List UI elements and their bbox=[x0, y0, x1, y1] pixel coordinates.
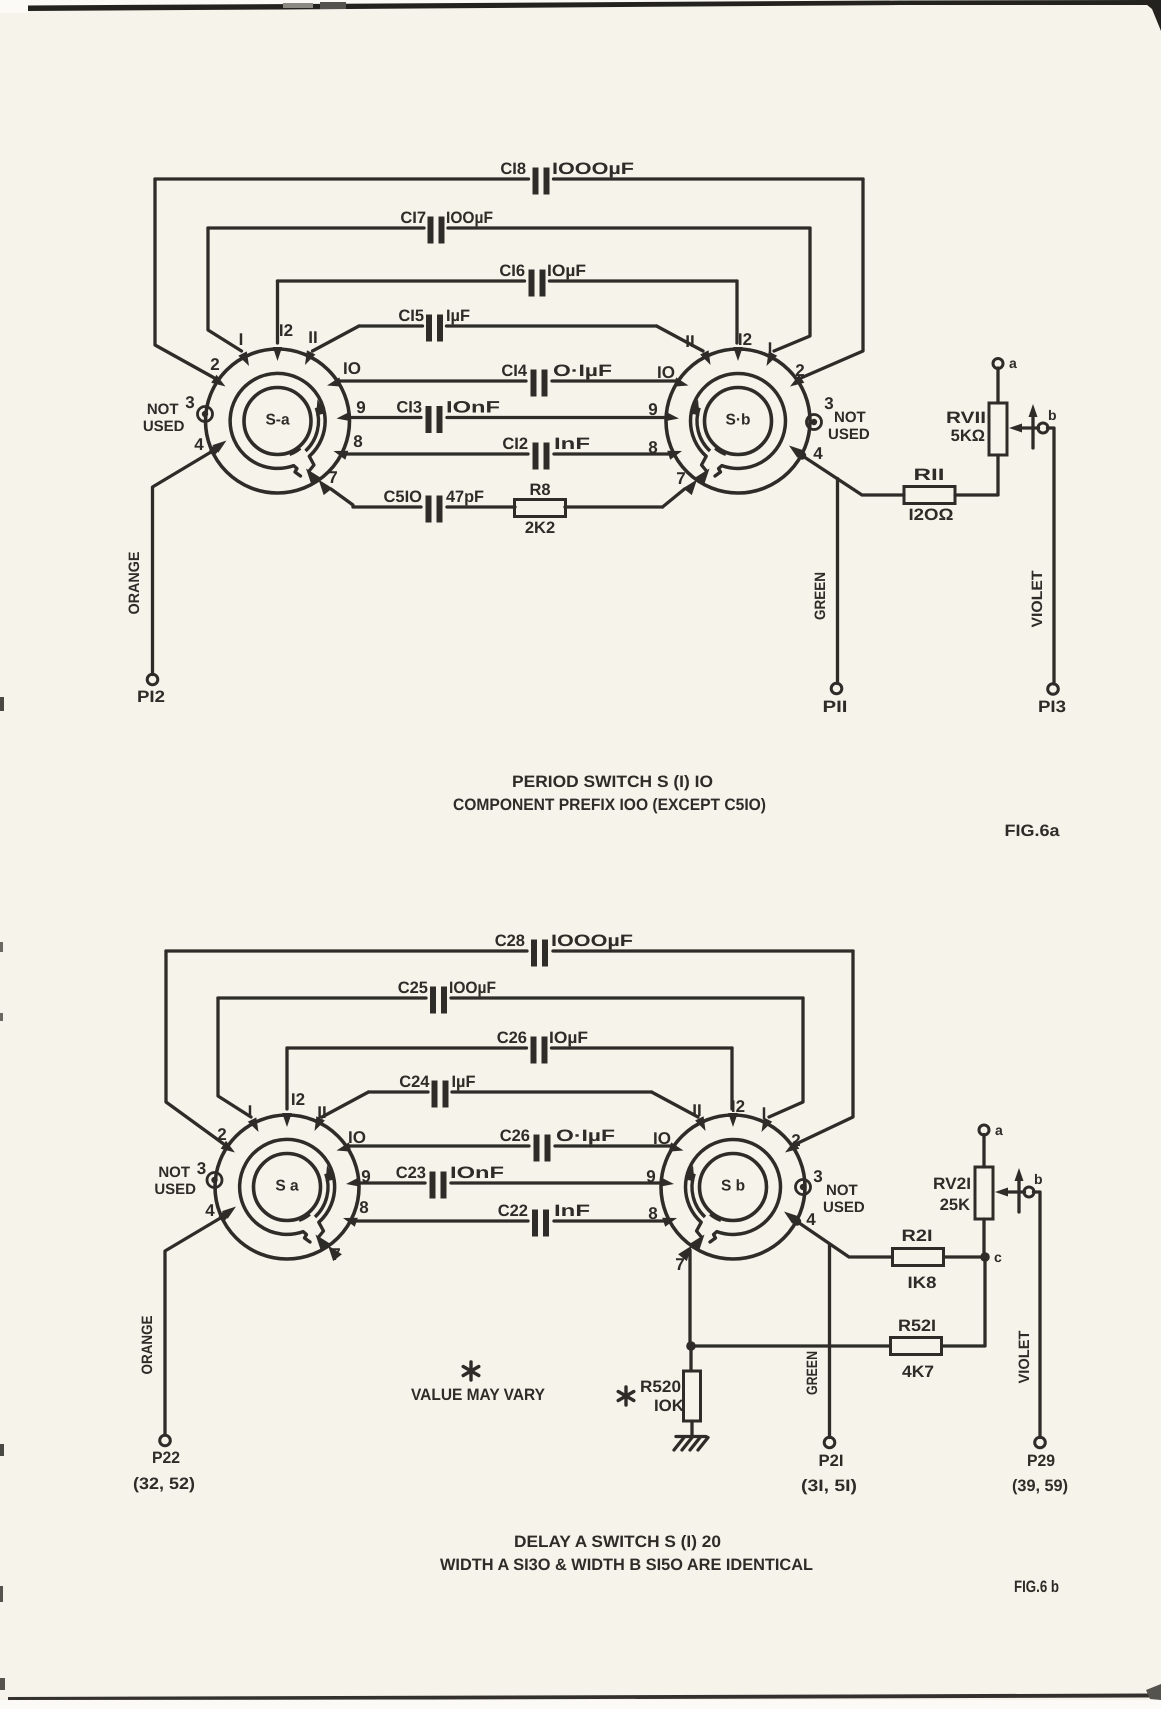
svg-text:a: a bbox=[995, 1122, 1003, 1138]
svg-text:C22: C22 bbox=[498, 1202, 528, 1220]
capacitor C12 1nF bbox=[533, 443, 539, 470]
svg-text:RVII: RVII bbox=[946, 409, 986, 427]
wire C17 left vertical to Sa pin 1 bbox=[208, 228, 242, 351]
svg-text:C26: C26 bbox=[500, 1127, 530, 1145]
svg-text:InF: InF bbox=[554, 435, 590, 453]
capacitor C15 1uF bbox=[426, 315, 432, 342]
asterisk at R520 bbox=[618, 1387, 634, 1405]
svg-text:I: I bbox=[248, 1102, 253, 1121]
svg-text:9: 9 bbox=[356, 398, 365, 417]
svg-text:I: I bbox=[239, 330, 244, 349]
svg-text:FIG.6a: FIG.6a bbox=[1005, 822, 1061, 840]
svg-text:I2: I2 bbox=[291, 1090, 305, 1109]
capacitor C23 10nF bbox=[430, 1172, 436, 1199]
svg-text:b: b bbox=[1034, 1171, 1043, 1187]
terminal b fig b bbox=[1024, 1187, 1034, 1197]
wire C13 row pins 9 bbox=[350, 416, 421, 419]
wire C28 right vertical to Sb pin 2 bbox=[797, 951, 853, 1144]
svg-text:P2I: P2I bbox=[819, 1452, 844, 1470]
svg-text:CI8: CI8 bbox=[500, 160, 526, 178]
svg-text:ORANGE: ORANGE bbox=[139, 1316, 156, 1375]
svg-text:IOOOµF: IOOOµF bbox=[551, 932, 633, 950]
NOT USED terminal 3 Sa fig a bbox=[198, 407, 213, 422]
svg-text:8: 8 bbox=[353, 432, 362, 451]
svg-text:IOnF: IOnF bbox=[446, 399, 500, 417]
switch Sb1 inner rotor circle bbox=[705, 388, 772, 455]
svg-text:I2: I2 bbox=[738, 330, 752, 349]
svg-text:4K7: 4K7 bbox=[902, 1363, 934, 1381]
switch Sa1 wiper arc arrow bbox=[306, 408, 319, 451]
resistor R11 120ohm bbox=[904, 487, 955, 504]
svg-text:3: 3 bbox=[185, 393, 194, 412]
svg-text:C26: C26 bbox=[497, 1029, 527, 1047]
wire node c down to R521 bbox=[942, 1257, 985, 1346]
wire RV21 bottom to node c bbox=[982, 1219, 985, 1257]
svg-text:InF: InF bbox=[554, 1202, 590, 1220]
pin 4 wire Sb fig a to R11 and GREEN bbox=[802, 456, 904, 496]
pin arrows top Sb fig b bbox=[728, 1113, 738, 1127]
svg-text:C5IO: C5IO bbox=[383, 488, 422, 506]
svg-text:9: 9 bbox=[648, 400, 657, 419]
svg-text:2: 2 bbox=[795, 361, 804, 380]
wiper arrow RV11 bbox=[1020, 426, 1039, 429]
svg-text:4: 4 bbox=[194, 435, 204, 454]
svg-text:8: 8 bbox=[648, 1204, 657, 1223]
svg-text:R2I: R2I bbox=[902, 1227, 933, 1245]
resistor R520 10K (vertical) bbox=[689, 1346, 692, 1371]
svg-text:I2: I2 bbox=[279, 321, 293, 340]
violet wire fig a bbox=[1048, 428, 1055, 684]
wire C14 row pins 10 bbox=[340, 379, 526, 382]
svg-text:IOOµF: IOOµF bbox=[449, 979, 496, 997]
svg-text:CI7: CI7 bbox=[400, 209, 426, 227]
scan specks left edge bbox=[0, 697, 4, 711]
svg-text:CI6: CI6 bbox=[499, 262, 525, 280]
svg-text:CI4: CI4 bbox=[501, 362, 528, 380]
wire C25 right vertical to Sb pin 1 bbox=[769, 998, 803, 1117]
svg-text:R8: R8 bbox=[529, 481, 550, 499]
node P13 (VIOLET) bbox=[1048, 684, 1059, 695]
svg-text:I2OΩ: I2OΩ bbox=[909, 506, 954, 524]
NOT USED terminal 3 Sb fig a bbox=[807, 415, 822, 430]
svg-text:I: I bbox=[768, 339, 773, 358]
svg-text:2K2: 2K2 bbox=[525, 519, 555, 537]
switch Sa2 contact ring with notch bbox=[240, 1139, 335, 1234]
junction dot pin7/R520/R521 bbox=[686, 1341, 696, 1351]
capacitor C510 47pF bbox=[426, 496, 432, 523]
wire R521 to pin7 junction bbox=[692, 1344, 890, 1347]
potentiometer RV11 5K bbox=[989, 403, 1007, 455]
terminal b fig a bbox=[1038, 423, 1048, 433]
svg-text:R52I: R52I bbox=[898, 1317, 936, 1335]
switch Sa1 contact ring with notch bbox=[230, 373, 325, 468]
switch Sb2 wiper arc arrow bbox=[692, 1174, 705, 1217]
svg-text:3: 3 bbox=[824, 394, 833, 413]
scan edge dark line bottom bbox=[8, 1694, 1161, 1701]
pin 4 wire Sb fig b to R21 bbox=[797, 1222, 892, 1258]
switch Sa2 wiper arc arrow bbox=[315, 1174, 328, 1217]
pin 8 arrows fig b bbox=[343, 1218, 358, 1227]
svg-text:IOµF: IOµF bbox=[549, 1029, 588, 1047]
pin arrows top Sa fig a bbox=[273, 347, 282, 361]
svg-text:GREEN: GREEN bbox=[804, 1351, 821, 1395]
svg-text:II: II bbox=[692, 1101, 701, 1120]
svg-text:4: 4 bbox=[813, 444, 823, 463]
svg-text:NOT: NOT bbox=[158, 1164, 190, 1181]
svg-text:IO: IO bbox=[343, 359, 361, 378]
pin 7 arrows + wire Sb fig b bbox=[691, 1235, 705, 1251]
svg-text:47pF: 47pF bbox=[446, 488, 484, 506]
svg-text:USED: USED bbox=[828, 426, 870, 443]
wire C15 row to pins 11 bbox=[359, 324, 423, 327]
svg-text:7: 7 bbox=[328, 468, 337, 487]
green branch vertical fig a bbox=[836, 479, 839, 684]
node P21 (GREEN) bbox=[824, 1437, 835, 1448]
svg-text:(3I, 5I): (3I, 5I) bbox=[801, 1477, 857, 1495]
svg-text:IOnF: IOnF bbox=[450, 1164, 504, 1182]
pin arrows top Sa fig b bbox=[282, 1113, 292, 1127]
violet wire fig b bbox=[1034, 1192, 1041, 1438]
capacitor C24 1uF bbox=[432, 1081, 438, 1108]
wire C510/R8 row pins 7 bbox=[331, 489, 421, 507]
svg-text:2: 2 bbox=[210, 355, 219, 374]
wire C17 loop bbox=[208, 226, 424, 229]
svg-text:IOµF: IOµF bbox=[547, 262, 586, 280]
pin 9 arrows fig b bbox=[346, 1177, 361, 1187]
svg-text:CI3: CI3 bbox=[396, 399, 422, 417]
wire C18 left vertical to Sa pin 2 bbox=[155, 179, 214, 378]
pin 10 arrows fig b bbox=[337, 1142, 352, 1151]
svg-text:DELAY A SWITCH S (I) 20: DELAY A SWITCH S (I) 20 bbox=[514, 1533, 721, 1551]
wire C28 left vertical to Sa pin 2 bbox=[166, 951, 223, 1144]
svg-text:(32, 52): (32, 52) bbox=[133, 1475, 195, 1493]
wire C18 right vertical to Sb pin 2 bbox=[802, 179, 863, 378]
svg-text:PI2: PI2 bbox=[137, 688, 165, 706]
svg-text:9: 9 bbox=[646, 1167, 655, 1186]
wire C16 loop bbox=[278, 279, 525, 282]
NOT USED terminal 3 Sa fig b bbox=[207, 1173, 222, 1188]
wire C24 row to pins 11 bbox=[369, 1090, 429, 1093]
svg-text:NOT: NOT bbox=[826, 1182, 858, 1199]
pin 10 arrows fig a bbox=[327, 377, 342, 386]
resistor R21 1K8 bbox=[893, 1249, 944, 1266]
svg-text:IOOµF: IOOµF bbox=[446, 209, 493, 227]
pin 7 arrows fig a bbox=[306, 469, 320, 485]
svg-text:3: 3 bbox=[813, 1167, 822, 1186]
svg-text:O·IµF: O·IµF bbox=[553, 362, 612, 380]
terminal a fig a bbox=[993, 359, 1003, 369]
wire C26 right vertical to Sb pin 12 bbox=[730, 1048, 733, 1109]
capacitor C18 1000uF bbox=[533, 168, 539, 195]
svg-text:CI5: CI5 bbox=[398, 307, 424, 325]
svg-text:25K: 25K bbox=[940, 1196, 970, 1214]
svg-text:P29: P29 bbox=[1027, 1452, 1055, 1470]
note asterisk bbox=[463, 1362, 479, 1380]
switch Sb1 wiper arc arrow bbox=[697, 408, 710, 451]
wire C25 loop bbox=[218, 996, 426, 999]
svg-text:O·IµF: O·IµF bbox=[556, 1127, 615, 1145]
switch Sa2 inner rotor circle bbox=[254, 1154, 321, 1221]
svg-text:9: 9 bbox=[361, 1167, 370, 1186]
wire C16 right vertical to Sb pin 12 bbox=[735, 281, 738, 343]
pin arrows top Sb fig a bbox=[733, 347, 743, 361]
svg-text:2: 2 bbox=[791, 1131, 800, 1150]
svg-text:C24: C24 bbox=[399, 1073, 430, 1091]
svg-text:NOT: NOT bbox=[834, 409, 866, 426]
svg-text:IO: IO bbox=[653, 1129, 671, 1148]
svg-text:II: II bbox=[685, 332, 694, 351]
svg-text:S-a: S-a bbox=[265, 412, 290, 429]
svg-text:IK8: IK8 bbox=[908, 1274, 937, 1292]
svg-text:IO: IO bbox=[348, 1128, 366, 1147]
svg-text:S·b: S·b bbox=[726, 412, 751, 429]
svg-text:8: 8 bbox=[359, 1198, 368, 1217]
svg-text:COMPONENT PREFIX IOO (EXCEPT: COMPONENT PREFIX IOO (EXCEPT C5IO) bbox=[453, 796, 766, 814]
svg-text:IO: IO bbox=[657, 363, 675, 382]
svg-text:USED: USED bbox=[823, 1199, 865, 1216]
green branch vertical fig b bbox=[828, 1245, 831, 1438]
svg-text:P22: P22 bbox=[152, 1449, 180, 1467]
svg-text:(39, 59): (39, 59) bbox=[1012, 1477, 1068, 1495]
pin 4 arrow + ORANGE wire Sa fig b bbox=[165, 1217, 223, 1436]
svg-text:II: II bbox=[308, 328, 317, 347]
switch Sa1 inner rotor circle bbox=[244, 388, 311, 455]
wire C25 left vertical to Sa pin 1 bbox=[218, 998, 251, 1117]
svg-text:IOK: IOK bbox=[654, 1397, 684, 1415]
capacitor C13 10nF bbox=[426, 406, 432, 433]
capacitor C16 10uF bbox=[529, 270, 535, 297]
svg-text:4: 4 bbox=[205, 1201, 215, 1220]
terminal a fig b bbox=[979, 1125, 989, 1135]
pin 4 arrow + junction Sa fig a bbox=[153, 451, 214, 675]
svg-text:7: 7 bbox=[331, 1245, 340, 1264]
wire C18 loop top bbox=[155, 177, 529, 180]
svg-text:2: 2 bbox=[217, 1125, 226, 1144]
capacitor C17 100uF bbox=[428, 217, 434, 244]
svg-text:5KΩ: 5KΩ bbox=[951, 427, 985, 445]
switch Sb1 contact ring with notch bbox=[690, 373, 785, 468]
switch Sb2 contact ring with notch bbox=[686, 1139, 781, 1234]
svg-text:GREEN: GREEN bbox=[812, 572, 829, 620]
svg-text:IOOOµF: IOOOµF bbox=[552, 160, 634, 178]
svg-text:USED: USED bbox=[154, 1181, 196, 1198]
svg-text:WIDTH A SI3O & WIDTH B S: WIDTH A SI3O & WIDTH B SI5O ARE IDENTICA… bbox=[440, 1556, 813, 1574]
svg-text:c: c bbox=[994, 1249, 1002, 1265]
svg-text:ORANGE: ORANGE bbox=[126, 552, 143, 615]
node c junction bbox=[944, 1255, 984, 1258]
wire C26 loop bbox=[287, 1046, 527, 1049]
pin 7 arrow stub Sa fig b bbox=[316, 1235, 330, 1251]
svg-text:VALUE MAY VARY: VALUE MAY VARY bbox=[411, 1386, 545, 1404]
svg-text:I2: I2 bbox=[731, 1097, 745, 1116]
svg-text:R520: R520 bbox=[640, 1378, 681, 1396]
resistor R521 4K7 bbox=[891, 1338, 942, 1355]
node P11 (GREEN) bbox=[831, 683, 842, 694]
svg-text:NOT: NOT bbox=[147, 401, 179, 418]
svg-text:S b: S b bbox=[721, 1178, 745, 1195]
svg-text:PERIOD SWITCH S (I) IO: PERIOD SWITCH S (I) IO bbox=[512, 773, 713, 791]
pin 8 arrows fig a bbox=[334, 451, 349, 460]
svg-text:VIOLET: VIOLET bbox=[1029, 571, 1046, 628]
svg-text:b: b bbox=[1048, 407, 1057, 423]
svg-text:S a: S a bbox=[275, 1178, 299, 1195]
svg-text:II: II bbox=[317, 1103, 326, 1122]
wire C26 left vertical to Sa pin 12 bbox=[285, 1048, 288, 1109]
scan edge dark line top bbox=[28, 0, 1161, 11]
rotary switch wafer Sb1 outer circle bbox=[666, 349, 810, 493]
rotary switch wafer Sa1 outer circle bbox=[206, 349, 350, 493]
svg-text:IµF: IµF bbox=[446, 307, 470, 325]
svg-text:8: 8 bbox=[648, 438, 657, 457]
node P12 (ORANGE) bbox=[147, 674, 158, 685]
wire C16 left vertical to Sa pin 12 bbox=[276, 281, 279, 343]
wire RV11 bottom to R11 bbox=[955, 455, 998, 495]
svg-text:CI2: CI2 bbox=[502, 435, 528, 453]
wire C12 row pins 8 bbox=[346, 452, 528, 455]
svg-text:C25: C25 bbox=[398, 979, 428, 997]
NOT USED terminal 3 Sb fig b bbox=[796, 1180, 811, 1195]
capacitor C28 1000uF bbox=[531, 940, 537, 967]
svg-text:C28: C28 bbox=[495, 932, 525, 950]
svg-text:RII: RII bbox=[914, 466, 945, 484]
svg-text:FIG.6 b: FIG.6 b bbox=[1014, 1578, 1059, 1596]
capacitor C26 10uF bbox=[531, 1037, 537, 1064]
node P22 (ORANGE) bbox=[160, 1435, 171, 1446]
svg-text:VIOLET: VIOLET bbox=[1016, 1331, 1033, 1384]
wire C17 right vertical to Sb pin 1 bbox=[774, 228, 810, 351]
svg-text:3: 3 bbox=[197, 1159, 206, 1178]
ground symbol bbox=[690, 1421, 693, 1437]
wire C26b row pins 10 bbox=[350, 1144, 530, 1147]
wire C23 row pins 9 bbox=[360, 1181, 426, 1184]
capacitor C22 1nF bbox=[532, 1210, 538, 1237]
svg-text:I: I bbox=[762, 1104, 767, 1123]
node P29 (VIOLET) bbox=[1035, 1437, 1046, 1448]
capacitor C26 0.1uF bbox=[534, 1135, 540, 1162]
white paper edge top bbox=[0, 0, 1161, 5]
svg-text:RV2I: RV2I bbox=[933, 1175, 971, 1193]
rotary switch wafer Sb2 outer circle bbox=[661, 1115, 805, 1259]
svg-text:a: a bbox=[1009, 355, 1017, 371]
resistor R8 2K2 bbox=[515, 500, 566, 517]
svg-text:C23: C23 bbox=[396, 1164, 426, 1182]
rotary switch wafer Sa2 outer circle bbox=[215, 1115, 359, 1259]
capacitor C14 0.1uF bbox=[531, 370, 537, 397]
wire C28 loop top bbox=[166, 949, 527, 952]
svg-text:IµF: IµF bbox=[452, 1073, 476, 1091]
potentiometer RV21 25K bbox=[975, 1167, 993, 1219]
svg-text:7: 7 bbox=[676, 469, 685, 488]
svg-text:PI3: PI3 bbox=[1038, 698, 1066, 716]
svg-text:4: 4 bbox=[806, 1210, 816, 1229]
switch Sb2 inner rotor circle bbox=[700, 1154, 767, 1221]
svg-text:USED: USED bbox=[143, 418, 185, 435]
capacitor C25 100uF bbox=[430, 987, 436, 1014]
svg-text:7: 7 bbox=[675, 1255, 684, 1274]
wiper arrow RV21 bbox=[1006, 1190, 1025, 1193]
wire C22 row pins 8 bbox=[356, 1219, 528, 1222]
pin 9 arrows fig a bbox=[337, 412, 352, 422]
svg-text:PII: PII bbox=[823, 698, 848, 716]
